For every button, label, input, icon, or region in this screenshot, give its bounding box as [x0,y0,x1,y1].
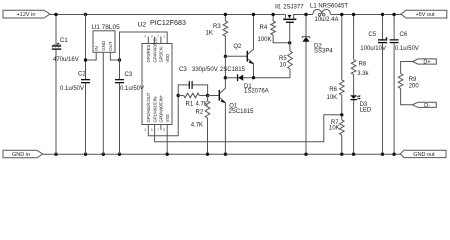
svg-text:R1: R1 [186,101,194,107]
svg-text:0.1u/50V: 0.1u/50V [60,86,84,92]
svg-text:D-: D- [424,103,430,109]
svg-text:6: 6 [151,128,153,132]
svg-text:GP2/AN2/COUT: GP2/AN2/COUT [146,92,151,122]
node dot C2/U1-IN [84,58,87,61]
op IC U2 PIC12F683 box [138,19,186,124]
node dot R1 right [206,94,209,97]
svg-text:100K: 100K [258,37,272,43]
junction GND rail / C6 [392,153,395,156]
U2 top stubs GP3 GP4 GP5 (unconnected) [147,37,149,44]
diode D3 LED [350,95,372,154]
svg-text:3.3k: 3.3k [357,71,369,77]
tag D- [412,102,436,109]
junction +12V rail / Q2 collector [252,13,255,16]
svg-text:R9: R9 [409,77,417,83]
wire bottom GND rail [43,153,401,155]
svg-text:470u/16V: 470u/16V [53,57,79,63]
svg-text:D+: D+ [423,60,430,66]
resistor R9 200 between D+ and D- [398,62,419,105]
svg-text:3: 3 [151,34,153,38]
wire U2 GP2 pin down right and up to R1/C4 node [148,96,178,136]
junction GND rail / D3 [352,153,355,156]
svg-text:C2: C2 [78,72,86,78]
U2 GP0 stub (unconnected, bottom) [160,125,162,131]
diode D1 1S2076A [237,74,269,94]
svg-text:LED: LED [360,108,372,114]
junction GND rail / C5 [381,153,384,156]
svg-text:7: 7 [157,128,159,132]
svg-text:8: 8 [163,128,165,132]
svg-text:5: 5 [144,128,146,132]
node dot R3/Q2-base [224,55,227,58]
tag GND in [3,150,43,158]
node dot gate/R4 [288,41,291,44]
junction +5V rail / C5 [381,13,384,16]
svg-text:0.1u/50V: 0.1u/50V [395,46,419,52]
junction GND rail / U2 VSS [166,153,169,156]
svg-text:M1: M1 [275,5,281,11]
svg-text:PIC12F683: PIC12F683 [150,19,186,27]
junction GND rail / C1 [54,153,57,156]
resistor R7 10K lower divider [329,120,344,154]
svg-text:2SC1815: 2SC1815 [229,109,255,115]
junction GND rail / R2 [206,153,209,156]
resistor R2 4.7K vertical [191,96,210,155]
svg-text:R3: R3 [213,24,221,30]
wire U1 IN pin to C2 node [86,52,97,60]
wire U2 GP1 pin feedback to R6/R7 divider [155,115,342,142]
node dot R3/D1/Q1-collector [224,76,227,79]
junction GND rail / D2 [304,153,307,156]
junction GND rail / Q1 emitter [224,153,227,156]
resistor R4 100K gate pull-up [258,14,290,43]
svg-text:2SJ377: 2SJ377 [283,5,304,11]
svg-text:GP0/AN0/CIN+: GP0/AN0/CIN+ [159,94,164,122]
svg-text:100u/10V: 100u/10V [360,46,386,52]
svg-text:C6: C6 [400,32,408,38]
junction +12V rail / R4 [271,13,274,16]
diode D2 SS3P4 schottky [302,14,333,154]
resistor R5 10 (gate series to D1 net) [279,43,292,78]
wire top rail M1 drain to L1 [294,13,313,15]
svg-text:4: 4 [144,34,146,38]
svg-text:GND out: GND out [413,152,435,158]
mosfet M1 2SJ377 [275,5,304,43]
wire Q1 base from R1 node [208,95,219,97]
inductor L1 NRS6045T 10u/2.4A [310,3,348,23]
wire top +12V rail (tag to M1 source) [50,13,285,15]
node dot R1/C4 left [177,94,180,97]
svg-text:10K: 10K [329,125,340,131]
svg-text:R6: R6 [329,87,337,93]
tag GND out [400,150,446,158]
capacitor C6 0.1u/50V [390,14,419,154]
svg-text:10: 10 [280,62,287,68]
svg-text:2SC1815: 2SC1815 [220,67,246,73]
svg-text:R5: R5 [279,56,287,62]
svg-text:IN: IN [94,46,99,51]
svg-text:R4: R4 [260,25,268,31]
svg-text:R2: R2 [196,110,204,116]
svg-text:GND in: GND in [12,152,30,158]
svg-text:SS3P4: SS3P4 [314,49,333,55]
svg-text:+5V out: +5V out [415,12,435,18]
node dot Q2-emitter/D1 [252,76,255,79]
svg-text:330p/50V: 330p/50V [192,67,218,73]
junction switch node / D2 [304,13,307,16]
capacitor C3 (0.1u/50V at U1 output) [115,60,144,154]
wire VDD supply from U1 OUT node up and right to U2 VDD pin [120,32,168,60]
svg-text:4.7K: 4.7K [191,122,203,128]
junction +5V rail / C6 [392,13,395,16]
wire Q2 base [225,55,247,57]
svg-text:200: 200 [409,83,420,89]
svg-text:+12V in: +12V in [17,12,36,18]
svg-text:VDD: VDD [165,54,170,63]
svg-text:R8: R8 [359,62,367,68]
regulator U1 78L05 box [92,24,121,52]
tag +5V out [401,10,447,18]
resistor R6 10K upper divider [327,14,345,120]
svg-text:C3: C3 [179,67,187,73]
junction +12V rail / R3 [224,13,227,16]
svg-text:U1 78L05: U1 78L05 [92,24,121,31]
svg-text:GND: GND [101,40,106,51]
transistor Q2 2SC1815 [220,14,254,78]
resistor R8 3.3k LED series [351,14,369,95]
capacitor C4 330p/50V with branch wires [178,67,218,96]
svg-text:GP1/AN1/CIN-: GP1/AN1/CIN- [152,95,157,122]
node dot R6/R7 divider [340,113,343,116]
resistor R1 4.7K horizontal [178,93,208,107]
svg-text:C5: C5 [368,32,376,38]
capacitor C1 (electrolytic 470u/16V) [52,14,79,154]
transistor Q1 2SC1815 [219,78,255,154]
svg-text:0.1u/50V: 0.1u/50V [120,86,144,92]
node dot U1-OUT/C3 [118,58,121,61]
svg-text:10u/2.4A: 10u/2.4A [315,17,339,23]
svg-text:1S2076A: 1S2076A [244,88,269,94]
junction GND rail / C3 [118,153,121,156]
wire U1 OUT pin to C3 node [110,52,119,60]
tag +12V in [3,10,50,18]
wire top +5V rail L1 to tag [330,13,401,15]
svg-text:OUT: OUT [108,41,113,51]
svg-text:2: 2 [157,34,159,38]
svg-text:VSS: VSS [165,114,170,122]
svg-text:U2: U2 [138,22,147,29]
svg-text:L1 NRS6045T: L1 NRS6045T [310,3,348,9]
junction GND rail / U1 GND [102,153,105,156]
capacitor C2 (0.1u/50V) [60,14,90,154]
svg-text:10K: 10K [327,95,338,101]
svg-text:1K: 1K [206,31,213,37]
svg-text:C3: C3 [125,72,133,78]
wire U1 GND pin to GND rail [102,52,104,154]
svg-text:GP3/RES: GP3/RES [146,45,151,63]
wire U2 VSS pin to GND rail [166,125,168,155]
junction +5V rail / R6 [340,13,343,16]
junction GND rail / C2 [84,153,87,156]
svg-text:C1: C1 [60,38,68,44]
node junction dots top rail [54,13,57,16]
junction GND rail / R7 [340,153,343,156]
svg-text:1: 1 [163,34,165,38]
junction +12V rail / C2 branch [84,13,87,16]
capacitor C5 100u/10V electrolytic [360,14,388,154]
tag D+ [412,59,436,66]
junction +5V rail / R8 [352,13,355,16]
resistor R3 1K from +12V rail [206,14,228,78]
svg-text:Q2: Q2 [233,44,242,50]
svg-text:GP5/CKI: GP5/CKI [159,47,164,63]
wire D1 net horizontal [225,77,290,79]
